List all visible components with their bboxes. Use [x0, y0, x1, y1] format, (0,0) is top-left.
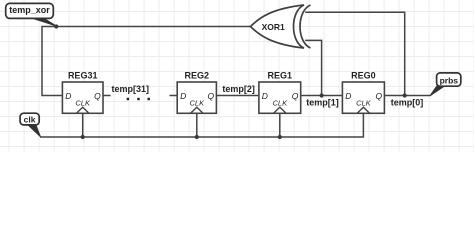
flip-flop REG31: [62, 71, 103, 114]
junction node temp[0]: [403, 93, 407, 97]
svg-text:D: D: [262, 91, 268, 101]
wire temp[2]: REG2 Q to REG1 D: [216, 95, 259, 97]
svg-text:temp_xor: temp_xor: [9, 5, 50, 15]
svg-text:temp[31]: temp[31]: [112, 84, 150, 94]
wire XOR1 top input from temp[0] node: [305, 12, 405, 95]
wire clk stub to REG31: [82, 113, 84, 137]
svg-text:Q: Q: [375, 91, 382, 101]
svg-text:Q: Q: [94, 91, 101, 101]
wire clk bus: [40, 113, 363, 137]
svg-text:prbs: prbs: [440, 75, 459, 85]
svg-text:temp[0]: temp[0]: [391, 97, 424, 107]
junction node temp[1]: [320, 93, 324, 97]
wire temp[1]: REG1 Q to REG0 D: [301, 95, 343, 97]
junction clk at REG2: [195, 135, 199, 139]
junction clk at REG31: [81, 135, 85, 139]
wire XOR1 bottom input from temp[1] node: [305, 40, 321, 95]
svg-text:REG2: REG2: [185, 71, 210, 81]
svg-text:CLK: CLK: [273, 98, 289, 107]
svg-text:CLK: CLK: [356, 98, 372, 107]
net label tag temp_xor: [6, 3, 57, 26]
svg-text:D: D: [180, 91, 186, 101]
svg-text:CLK: CLK: [75, 98, 91, 107]
wire REG2 D input stub: [170, 95, 178, 97]
xor gate XOR1 (mirrored, output at left): [251, 5, 311, 48]
svg-text:REG1: REG1: [268, 71, 293, 81]
ellipsis dots for omitted registers: [127, 98, 150, 100]
svg-text:clk: clk: [24, 115, 36, 125]
wire clk stub to REG1: [279, 113, 281, 137]
flip-flop REG0: [342, 71, 384, 114]
wire temp[0]: REG0 Q to prbs tag: [384, 95, 430, 97]
svg-text:temp[2]: temp[2]: [222, 84, 255, 94]
svg-text:Q: Q: [292, 91, 299, 101]
svg-text:Q: Q: [207, 91, 214, 101]
svg-text:CLK: CLK: [190, 98, 206, 107]
wire temp_xor: XOR1 output to REG31 D input: [42, 27, 251, 96]
svg-text:temp[1]: temp[1]: [306, 97, 339, 107]
svg-text:REG0: REG0: [351, 71, 376, 81]
flip-flop REG1: [259, 71, 301, 114]
wire clk stub to REG2: [196, 113, 198, 137]
output tag prbs: [430, 73, 461, 96]
junction clk at REG1: [278, 135, 282, 139]
svg-text:D: D: [345, 91, 351, 101]
wire temp[31]: REG31 Q stub: [103, 95, 111, 97]
flip-flop REG2: [177, 71, 216, 114]
svg-text:D: D: [65, 91, 71, 101]
junction dot temp_xor on wire: [54, 24, 58, 28]
svg-text:XOR1: XOR1: [262, 22, 285, 32]
input tag clk: [20, 113, 40, 137]
svg-text:REG31: REG31: [68, 71, 98, 81]
